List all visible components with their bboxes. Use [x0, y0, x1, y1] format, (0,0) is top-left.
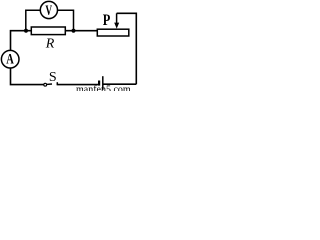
- resistor R body: [31, 27, 65, 35]
- wire left column: ammeter top up to main wire corner and across to R: [11, 31, 32, 51]
- wire voltmeter branch left riser and top-left segment: [26, 10, 41, 31]
- svg-text:A: A: [6, 51, 14, 67]
- rheostat P body: [97, 29, 129, 36]
- wire battery to switch: [58, 84, 99, 86]
- svg-text:S: S: [49, 70, 57, 85]
- battery cell short plate (-): [98, 81, 100, 86]
- svg-text:R: R: [45, 37, 55, 52]
- rheostat slider arrow: [116, 13, 118, 23]
- switch S hinge dot: [44, 83, 47, 86]
- switch S blade: [46, 83, 52, 85]
- wire switch to bottom-left corner and up to ammeter: [11, 68, 45, 85]
- ammeter U2 circle: [1, 50, 19, 68]
- svg-text:V: V: [45, 2, 52, 19]
- wire slider to top-right corner and down right side: [117, 13, 137, 84]
- svg-text:P: P: [103, 12, 111, 30]
- battery cell long plate (+): [102, 76, 104, 90]
- switch S right contact tick: [56, 82, 58, 85]
- node junction right (voltmeter tap): [71, 29, 75, 33]
- svg-text:manfen5.com: manfen5.com: [76, 85, 131, 92]
- wire from R to P: [65, 30, 97, 32]
- wire bottom-right: right corner to battery: [103, 83, 136, 85]
- wire voltmeter branch top-right segment and right riser: [58, 10, 74, 31]
- node junction left (voltmeter tap): [24, 29, 28, 33]
- voltmeter U1 circle: [40, 1, 57, 18]
